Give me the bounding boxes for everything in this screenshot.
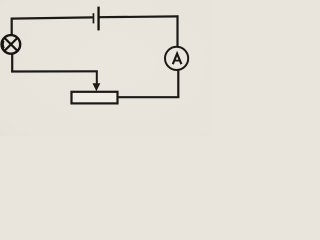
rheostat R1 (box) [72, 92, 118, 104]
wire left vertical upper (corner to lamp top) [11, 18, 13, 36]
ammeter label A [173, 54, 182, 65]
wire top-left horizontal (lamp corner to battery) [11, 17, 93, 18]
wire top-right horizontal (battery to corner) [99, 15, 178, 18]
battery cell B1 [93, 7, 100, 31]
rheostat wiper arrow [93, 71, 101, 92]
background paper [0, 0, 210, 136]
wire left vertical lower (lamp bottom to corner) [11, 53, 13, 71]
wire right vertical upper (corner to ammeter) [176, 15, 178, 47]
wire bottom-right horizontal (corner to rheostat) [117, 96, 179, 98]
lamp L1 (circle with X) [2, 35, 21, 54]
wire right vertical lower (ammeter to bottom corner) [177, 70, 179, 98]
ammeter A1 [165, 47, 188, 70]
wire bottom-left horizontal (corner to wiper arrow) [11, 70, 98, 72]
